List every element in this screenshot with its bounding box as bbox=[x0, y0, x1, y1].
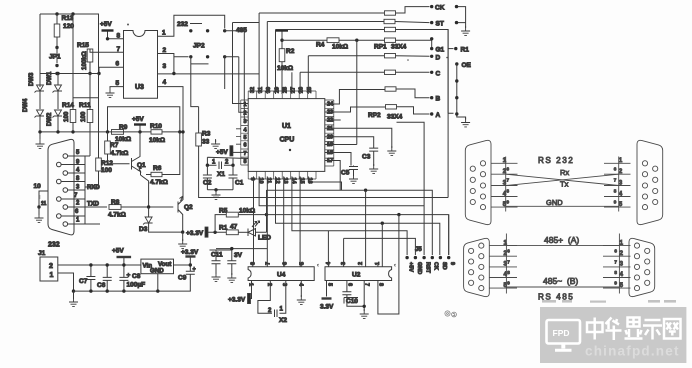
svg-text:RST: RST bbox=[425, 262, 431, 274]
crystal X2 bbox=[258, 281, 287, 325]
svg-text:1: 1 bbox=[212, 160, 216, 166]
svg-text:C3: C3 bbox=[362, 154, 371, 161]
svg-text:5: 5 bbox=[116, 80, 120, 87]
svg-text:DW2: DW2 bbox=[47, 112, 53, 126]
svg-text:10: 10 bbox=[258, 178, 264, 184]
wire U2 pin7 ground bbox=[360, 281, 369, 319]
right shell circles bbox=[642, 161, 657, 210]
svg-text:D3: D3 bbox=[139, 226, 148, 233]
wire Tx cross bbox=[506, 174, 619, 188]
wire bus y223.2 pin12 bbox=[276, 176, 440, 255]
resistor R13 bbox=[54, 14, 74, 49]
stamp marks bbox=[445, 311, 457, 317]
svg-text:B: B bbox=[436, 96, 441, 103]
pin 1 wire bbox=[68, 218, 100, 225]
svg-text:X1: X1 bbox=[217, 171, 225, 178]
svg-text:1: 1 bbox=[243, 102, 246, 108]
wire bus1 CK row bbox=[259, 13, 384, 94]
regulator U5 bbox=[141, 259, 174, 293]
node B bbox=[430, 96, 441, 103]
svg-text:4.7kΩ: 4.7kΩ bbox=[150, 179, 168, 186]
svg-text:Q1: Q1 bbox=[137, 162, 146, 169]
node D bbox=[430, 54, 441, 61]
wire RP2 C out bbox=[396, 71, 430, 73]
pin 8 wire bbox=[61, 176, 85, 182]
svg-text:6: 6 bbox=[75, 209, 79, 215]
svg-text:+3.3V: +3.3V bbox=[186, 230, 204, 237]
wire bus y230.8 pin14 bbox=[292, 176, 407, 255]
svg-text:27: 27 bbox=[291, 87, 297, 93]
connector DB9 485 right shell bbox=[629, 238, 655, 296]
wire 485+ A bbox=[506, 235, 619, 246]
svg-text:R12: R12 bbox=[101, 160, 113, 167]
svg-text:R6: R6 bbox=[153, 165, 162, 172]
crystal X1 bbox=[206, 157, 249, 178]
chip U4 bbox=[248, 262, 315, 287]
node C bbox=[430, 70, 441, 77]
wire bus y190 bbox=[267, 190, 433, 255]
ground U4 pin4 bbox=[297, 281, 306, 305]
svg-text:R13: R13 bbox=[62, 15, 74, 22]
svg-text:3: 3 bbox=[341, 262, 347, 265]
svg-text:R10: R10 bbox=[150, 123, 162, 130]
node R1 bbox=[454, 47, 469, 54]
svg-text:5: 5 bbox=[76, 150, 80, 156]
svg-text:8: 8 bbox=[117, 33, 121, 40]
ground pin21 bbox=[387, 146, 396, 155]
wire JP2 row2 right down bbox=[224, 57, 226, 89]
resistor R14 bbox=[62, 14, 99, 132]
svg-text:4: 4 bbox=[243, 127, 247, 133]
node hdr4 bbox=[455, 96, 458, 99]
resistor network RP1 bbox=[374, 11, 407, 51]
svg-text:10kΩ: 10kΩ bbox=[332, 44, 348, 51]
svg-text:C5: C5 bbox=[341, 170, 350, 177]
svg-text:5: 5 bbox=[299, 262, 305, 265]
diode DW2 bbox=[47, 110, 62, 132]
connector DB9 right shell bbox=[637, 140, 663, 224]
wire RP2 B out bbox=[396, 89, 430, 98]
wire pin16 down bbox=[308, 176, 341, 190]
ground DW4 bbox=[36, 132, 45, 149]
svg-text:U1: U1 bbox=[282, 123, 291, 130]
svg-text:1: 1 bbox=[280, 307, 284, 313]
wire JP2 row2 left to R3 bbox=[191, 57, 199, 107]
svg-text:RXD: RXD bbox=[87, 185, 100, 191]
wire C11 rail bbox=[216, 248, 267, 250]
svg-text:16: 16 bbox=[307, 178, 313, 184]
svg-text:31: 31 bbox=[258, 87, 264, 93]
svg-text:3V: 3V bbox=[234, 252, 243, 259]
svg-text:6: 6 bbox=[243, 143, 246, 149]
svg-text:29: 29 bbox=[274, 87, 280, 93]
node CK bbox=[430, 5, 445, 12]
svg-text:33: 33 bbox=[202, 139, 210, 146]
pin 4 wire bbox=[68, 168, 85, 174]
wire bus y238.4 GND bbox=[344, 238, 416, 255]
resistor R5 bbox=[215, 208, 268, 233]
wire RP1 CK out bbox=[396, 7, 430, 13]
pin circles col A bbox=[63, 154, 68, 227]
svg-text:J1: J1 bbox=[38, 250, 46, 257]
svg-text:10kΩ: 10kΩ bbox=[239, 208, 255, 215]
wire RP2 D out bbox=[396, 55, 430, 58]
wire OE column bbox=[457, 64, 466, 120]
svg-text:7: 7 bbox=[507, 259, 510, 264]
wire bus y197.5 long bbox=[254, 197, 449, 199]
node G1 bbox=[430, 47, 445, 54]
power +5V U3 bbox=[100, 21, 124, 41]
svg-text:8: 8 bbox=[251, 262, 257, 265]
svg-text:9: 9 bbox=[449, 262, 455, 265]
ground U3 pin5 bbox=[106, 87, 124, 98]
wire bus C row bbox=[300, 72, 384, 94]
pins U1 right 24-17 bbox=[325, 100, 334, 166]
node top rail junction x57 bbox=[55, 12, 58, 15]
wire J5 pin3 riser RST bbox=[397, 122, 425, 255]
capacitor C2 bbox=[203, 165, 212, 190]
svg-text:4.7kΩ: 4.7kΩ bbox=[111, 150, 129, 157]
svg-text:SD: SD bbox=[441, 262, 447, 270]
speck mark bbox=[407, 59, 409, 61]
capacitor C1 bbox=[229, 165, 244, 190]
485 left circles bbox=[469, 243, 484, 291]
svg-text:2: 2 bbox=[225, 160, 229, 166]
svg-text:R1: R1 bbox=[461, 47, 470, 54]
svg-text:+5V: +5V bbox=[216, 149, 228, 156]
connector DB9 485 left shell bbox=[464, 238, 490, 296]
connector 232 DB9 shell bbox=[48, 139, 74, 235]
node U3 pin3 x173.9 bbox=[172, 72, 175, 75]
svg-text:DW1: DW1 bbox=[47, 71, 53, 85]
svg-text:25: 25 bbox=[307, 87, 313, 93]
resistor R7 bbox=[105, 132, 130, 164]
ground shell tap bbox=[35, 207, 44, 222]
wire R1 column bbox=[448, 30, 453, 198]
node x99 y73.5 bbox=[97, 72, 100, 75]
svg-text:OE: OE bbox=[462, 62, 472, 69]
pins U1 left 1-8 bbox=[236, 100, 248, 165]
wire U2 pin2 riser bbox=[365, 190, 367, 267]
svg-text:RS 232: RS 232 bbox=[538, 156, 574, 165]
watermark chinese logotype bbox=[587, 318, 681, 341]
power +5V Q1 bbox=[132, 116, 146, 134]
svg-text:8: 8 bbox=[614, 189, 617, 194]
svg-text:J5: J5 bbox=[415, 247, 422, 253]
svg-text:7: 7 bbox=[614, 259, 617, 264]
power +3.3V out bbox=[181, 249, 199, 271]
svg-text:C11: C11 bbox=[211, 252, 223, 259]
svg-text:8: 8 bbox=[614, 270, 617, 275]
svg-text:3.3V: 3.3V bbox=[320, 304, 334, 311]
svg-text:RP2: RP2 bbox=[368, 112, 381, 119]
svg-text:11: 11 bbox=[266, 178, 272, 184]
wire U3 pin1 to JP2 bbox=[158, 15, 225, 36]
svg-text:7: 7 bbox=[243, 151, 246, 157]
wire 485- B bbox=[506, 276, 619, 287]
wire Rx cross bbox=[506, 168, 619, 186]
svg-text:9: 9 bbox=[614, 281, 617, 286]
pin 6 wire bbox=[61, 209, 85, 216]
resistor R4 bbox=[282, 38, 384, 51]
speck bbox=[446, 57, 448, 59]
connector J1 bbox=[38, 250, 58, 281]
svg-text:1: 1 bbox=[50, 272, 54, 279]
svg-text:U4: U4 bbox=[277, 272, 286, 279]
node hdr1 bbox=[455, 5, 458, 8]
transistor Q2 bbox=[178, 196, 193, 234]
resistor network RP2 bbox=[368, 54, 403, 121]
svg-text:CK: CK bbox=[433, 262, 439, 270]
wire RP2 A out bbox=[397, 107, 430, 114]
svg-text:3: 3 bbox=[281, 283, 287, 286]
svg-text:A: A bbox=[436, 112, 441, 119]
node OE bbox=[455, 62, 471, 69]
wire bus3 row bbox=[276, 30, 385, 95]
svg-text:100: 100 bbox=[63, 111, 70, 122]
jumper JP1 bbox=[49, 48, 61, 76]
wire pin24 to B bus bbox=[325, 89, 385, 104]
wire rail y131.9 bbox=[40, 131, 111, 133]
resistor R10 bbox=[149, 123, 182, 144]
485 left strip bbox=[489, 234, 517, 294]
svg-text:47: 47 bbox=[230, 224, 238, 231]
svg-text:+3.3V: +3.3V bbox=[181, 249, 199, 256]
left shell circles bbox=[470, 161, 485, 210]
wire pin17 down bbox=[325, 161, 340, 191]
svg-text:C: C bbox=[436, 70, 441, 77]
wire shell tap 10 bbox=[34, 183, 49, 209]
svg-text:4: 4 bbox=[163, 79, 167, 86]
svg-text:26: 26 bbox=[299, 87, 305, 93]
svg-text:D: D bbox=[436, 54, 441, 61]
svg-text:485~ (B): 485~ (B) bbox=[543, 276, 578, 286]
svg-text:21: 21 bbox=[327, 126, 333, 132]
ground X1 caps bbox=[207, 188, 233, 199]
resistor R1 47 bbox=[219, 224, 248, 235]
svg-text:CPU: CPU bbox=[280, 137, 295, 144]
svg-text:Rx: Rx bbox=[560, 168, 569, 177]
wire CPU pin15 to U4 pin5 bbox=[300, 176, 301, 266]
wire bus y205.7 pin10 bbox=[259, 176, 424, 205]
svg-text:2: 2 bbox=[49, 263, 53, 270]
wire U2 pin4 riser bbox=[327, 231, 329, 267]
node row4 bbox=[430, 37, 433, 40]
svg-text:X2: X2 bbox=[279, 317, 287, 324]
svg-text:DW3: DW3 bbox=[29, 72, 35, 86]
svg-text:485+ (A): 485+ (A) bbox=[544, 235, 579, 245]
node C11 rail bbox=[230, 247, 233, 250]
node hdr5 bbox=[455, 112, 458, 115]
svg-text:100: 100 bbox=[80, 111, 87, 122]
node x58 y73.5 bbox=[56, 72, 59, 75]
pin 7 wire bbox=[61, 193, 85, 199]
svg-text:C1: C1 bbox=[235, 180, 244, 187]
power 3.3V U2 bbox=[320, 281, 334, 311]
svg-text:13: 13 bbox=[282, 178, 288, 184]
svg-text:7: 7 bbox=[507, 178, 510, 183]
pins U1 top 32-25 bbox=[248, 87, 316, 99]
svg-text:U3: U3 bbox=[135, 84, 144, 91]
svg-text:2: 2 bbox=[358, 262, 364, 265]
speck U2 bbox=[394, 264, 395, 267]
left pin strip bbox=[491, 157, 518, 212]
svg-text:JP1: JP1 bbox=[49, 54, 61, 61]
diode DW4 bbox=[23, 98, 44, 132]
wire pin18 to C5 bbox=[325, 153, 351, 166]
wire pin6 row y73.5 bbox=[40, 67, 259, 74]
svg-text:15: 15 bbox=[299, 178, 305, 184]
svg-text:CK: CK bbox=[435, 5, 445, 12]
svg-text:232: 232 bbox=[177, 21, 188, 28]
svg-text:12: 12 bbox=[274, 178, 280, 184]
wire pin19 to R4 node bbox=[325, 40, 357, 144]
svg-text:+5V: +5V bbox=[112, 248, 124, 255]
svg-text:+3.3V: +3.3V bbox=[228, 297, 246, 304]
capacitor C11 bbox=[210, 250, 233, 281]
svg-text:11: 11 bbox=[41, 201, 47, 207]
svg-text:6: 6 bbox=[507, 249, 510, 254]
svg-text:9: 9 bbox=[507, 281, 510, 286]
svg-text:100µF: 100µF bbox=[127, 282, 146, 289]
node y223.2 x382.3 bbox=[381, 222, 384, 225]
svg-text:Q2: Q2 bbox=[184, 204, 193, 211]
wire pin22 stub bbox=[325, 119, 341, 121]
wire RP1 ST out bbox=[395, 22, 430, 23]
svg-text:10kΩ: 10kΩ bbox=[149, 137, 165, 144]
svg-text:C6: C6 bbox=[97, 282, 106, 289]
LED bbox=[248, 190, 271, 242]
svg-text:10kΩ: 10kΩ bbox=[277, 65, 293, 72]
ground hdr bottom bbox=[461, 118, 470, 127]
wire U2 pin3 riser bbox=[343, 238, 345, 266]
svg-text:ST: ST bbox=[436, 21, 444, 28]
resistor R11 bbox=[79, 74, 93, 157]
svg-text:5: 5 bbox=[243, 135, 246, 141]
svg-text:28: 28 bbox=[282, 87, 288, 93]
pin circles col B bbox=[57, 162, 62, 218]
pin 9 wire bbox=[61, 160, 85, 166]
speck U4 bbox=[317, 264, 318, 267]
wire bus y214.6 bbox=[267, 215, 449, 255]
capacitor C8 electrolytic bbox=[119, 263, 145, 293]
svg-text:7: 7 bbox=[614, 178, 617, 183]
wire J5 pin6 riser bbox=[448, 215, 450, 255]
capacitor C9 bbox=[178, 267, 196, 292]
wire CPU pin11 to U4 pin7 bbox=[266, 176, 268, 266]
wire pin23 to A bus bbox=[325, 107, 386, 112]
svg-text:2: 2 bbox=[163, 47, 167, 54]
svg-text:R11: R11 bbox=[79, 102, 91, 109]
resistor R15 bbox=[77, 42, 124, 75]
resistor R12 bbox=[85, 74, 113, 188]
watermark panel bbox=[540, 307, 686, 363]
resistor R2 bbox=[276, 31, 295, 95]
svg-text:32: 32 bbox=[250, 87, 256, 93]
svg-text:6: 6 bbox=[507, 167, 510, 172]
node hdr3 bbox=[455, 79, 458, 82]
svg-text:+5V: +5V bbox=[100, 21, 112, 28]
svg-text:8: 8 bbox=[243, 159, 246, 165]
capacitor C7 bbox=[79, 263, 95, 293]
svg-text:2: 2 bbox=[266, 283, 272, 286]
power +5V X1 bbox=[216, 146, 248, 156]
node x183 rail bbox=[181, 130, 184, 133]
wire U2 pin1 riser bbox=[378, 223, 382, 267]
node y214.6 x398.9 bbox=[397, 213, 400, 216]
svg-text:3: 3 bbox=[163, 63, 167, 70]
svg-text:+5V: +5V bbox=[132, 116, 144, 123]
svg-text:14: 14 bbox=[290, 178, 296, 185]
svg-text:8: 8 bbox=[507, 189, 510, 194]
wire CPU pin9 to U4 pin8 bbox=[252, 176, 255, 266]
svg-text:JP2: JP2 bbox=[193, 43, 205, 50]
resistor R6 bbox=[146, 132, 180, 186]
svg-text:6: 6 bbox=[614, 249, 617, 254]
svg-text:7: 7 bbox=[74, 193, 78, 199]
pin 3 wire RXD bbox=[68, 185, 101, 191]
svg-text:100: 100 bbox=[101, 167, 112, 174]
svg-text:9: 9 bbox=[614, 200, 617, 205]
wire pin27 stub bbox=[291, 72, 293, 94]
svg-text:R2: R2 bbox=[286, 48, 295, 55]
node ST bbox=[430, 21, 444, 28]
power +3.3V LED rail bbox=[186, 227, 226, 237]
svg-text:C10: C10 bbox=[346, 298, 358, 305]
wire R1 stub bbox=[448, 48, 453, 50]
diode D3 bbox=[139, 207, 183, 233]
jumper JP2 bbox=[189, 29, 226, 64]
svg-text:1: 1 bbox=[76, 218, 80, 224]
node A bbox=[430, 112, 441, 119]
chip U2 bbox=[325, 261, 392, 286]
wire CPU pin2 riser bbox=[225, 57, 249, 112]
wire CPU pin3 riser bbox=[225, 31, 249, 121]
svg-text:+5V: +5V bbox=[408, 262, 414, 272]
wire 485 bus vertical bbox=[233, 23, 260, 104]
wire left column x40 bbox=[39, 14, 41, 87]
svg-text:232: 232 bbox=[48, 242, 60, 249]
op-amp U3 bbox=[116, 30, 167, 99]
wire Vout 3.3V bbox=[174, 264, 191, 266]
svg-text:GND: GND bbox=[416, 262, 422, 274]
label 232 select bbox=[177, 21, 202, 28]
wire J1 pin1 to rail bbox=[58, 273, 74, 291]
svg-text:DW4: DW4 bbox=[23, 98, 29, 112]
wire U3 pin4 to Q2 emitter column bbox=[158, 87, 184, 196]
resistor R3 bbox=[196, 107, 254, 198]
wire top-left rail y14 bbox=[40, 14, 99, 74]
header J5 bbox=[405, 247, 455, 274]
ground rail bbox=[69, 291, 78, 306]
ground Q2 bbox=[178, 232, 187, 248]
wire bottom rail bbox=[74, 290, 191, 292]
power +5V input bbox=[112, 248, 131, 266]
svg-text:6: 6 bbox=[282, 262, 288, 265]
capacitor C12 3V bbox=[227, 249, 242, 283]
node rail x73 bbox=[71, 130, 74, 133]
svg-text:R4: R4 bbox=[316, 42, 325, 49]
svg-text:U2: U2 bbox=[352, 272, 361, 279]
wire pin20 to C3 bbox=[325, 137, 374, 148]
svg-text:5: 5 bbox=[327, 283, 333, 286]
ground X1 area bbox=[211, 139, 220, 148]
svg-text:3: 3 bbox=[243, 119, 246, 125]
svg-text:R14: R14 bbox=[62, 102, 74, 109]
svg-text:9: 9 bbox=[249, 178, 255, 181]
resistor R9 bbox=[106, 124, 151, 143]
svg-text:LED: LED bbox=[258, 235, 271, 242]
